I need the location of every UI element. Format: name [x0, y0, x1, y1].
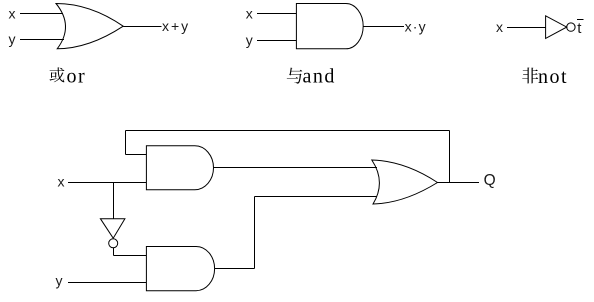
svg-text:y: y [9, 31, 16, 47]
wire y to AND1 [257, 40, 296, 42]
svg-text:x·y: x·y [405, 19, 427, 35]
svg-text:x: x [246, 6, 253, 22]
wire feedback right vertical [449, 131, 451, 183]
wire x into AND2 bottom input [68, 182, 146, 184]
wire AND1 output [363, 26, 404, 28]
or-gate OR1 [56, 3, 123, 48]
wire x to NOT1 [507, 27, 546, 29]
wire Q output [438, 182, 480, 184]
wire y into AND3 bottom input [68, 282, 146, 284]
svg-text:and: and [303, 66, 336, 88]
and-gate AND1 [296, 4, 363, 49]
caption 非 [522, 68, 538, 84]
and-gate AND2 (upper) [146, 146, 213, 190]
wire AND2 output to OR2 [214, 167, 378, 169]
not-gate NOT2 bubble [109, 239, 118, 248]
not-gate NOT1 bubble [567, 23, 575, 31]
wire x to OR1 [20, 13, 63, 15]
wire AND3 output vertical riser [254, 197, 256, 269]
wire NOT2 output down [113, 248, 115, 256]
svg-text:x: x [9, 6, 16, 22]
svg-text:x: x [58, 174, 65, 190]
and-gate AND3 (lower) [146, 247, 214, 291]
wire into OR2 bottom input [255, 196, 378, 198]
caption 或 [49, 67, 64, 82]
svg-text:x: x [496, 19, 503, 35]
wire y to OR1 [20, 39, 64, 41]
svg-text:not: not [538, 66, 568, 88]
not-gate NOT1 triangle [546, 16, 567, 39]
svg-text:x+y: x+y [162, 18, 190, 34]
overline of t [577, 19, 584, 21]
caption 与 [287, 68, 303, 84]
svg-text:or: or [67, 66, 87, 88]
wire x to AND1 [257, 13, 296, 15]
wire AND3 output [215, 268, 255, 270]
svg-text:t: t [577, 20, 582, 37]
or-gate OR2 [372, 160, 438, 204]
svg-text:Q: Q [484, 172, 496, 189]
wire OR1 output [123, 26, 161, 28]
wire feedback top [126, 130, 450, 132]
wire feedback into AND2 top input [126, 154, 147, 156]
wire junction x down to NOT2 [113, 183, 115, 219]
wire feedback left vertical [125, 131, 127, 155]
svg-text:y: y [56, 273, 63, 289]
svg-text:y: y [246, 32, 253, 48]
not-gate NOT2 triangle [100, 219, 125, 239]
wire NOT2 output into AND3 top input [114, 255, 147, 257]
